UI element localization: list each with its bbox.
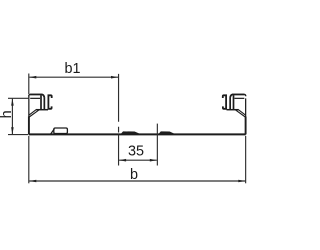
dimension labels	[0, 61, 144, 183]
svg-text:b1: b1	[64, 61, 80, 77]
svg-text:35: 35	[128, 144, 144, 160]
b1 dimension line	[29, 76, 118, 78]
h arrows	[11, 99, 14, 106]
wire: right wall	[245, 98, 247, 116]
diagonal strut double line	[29, 110, 39, 117]
wire: bottom base line	[29, 133, 246, 135]
node A: left clip assembly	[29, 94, 52, 117]
arrowheads	[11, 76, 245, 182]
dimensioning	[8, 74, 246, 184]
svg-text:b: b	[130, 167, 138, 183]
b1 left extension line	[28, 74, 30, 95]
C channel rail	[48, 95, 51, 109]
b1 right extension line	[118, 74, 120, 133]
descender double wall	[40, 95, 42, 109]
b1 arrows	[29, 76, 36, 79]
35 arrows	[119, 159, 126, 162]
35 right extension line	[156, 124, 158, 166]
b dimension line	[29, 180, 245, 182]
top fold bar	[30, 93, 42, 95]
foot line	[36, 109, 48, 111]
rib B on base	[158, 131, 176, 134]
rib A on base	[120, 131, 141, 134]
svg-text:h: h	[0, 110, 15, 118]
b left extension line	[28, 136, 30, 183]
35 left extension line	[118, 135, 120, 166]
h bottom extension line	[8, 134, 28, 136]
h top extension line	[8, 97, 30, 99]
node B: right clip assembly (mirror)	[223, 94, 246, 117]
knockout tab on base (left)	[51, 128, 68, 134]
b right extension line	[245, 136, 247, 183]
b arrows	[29, 180, 36, 183]
trunking base profile cross-section	[29, 94, 246, 134]
wire: left wall	[28, 96, 30, 117]
35 dimension line	[119, 159, 157, 161]
h dimension line	[11, 99, 13, 135]
